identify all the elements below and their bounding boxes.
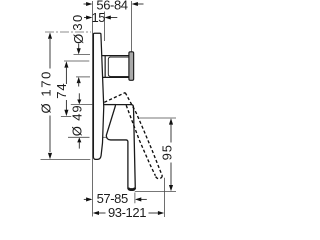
dimension diameter 30 arrows — [78, 44, 80, 50]
dimension diameter 74 — [64, 61, 68, 67]
wire diameter170 bottom reference — [41, 159, 91, 161]
svg-text:30: 30 — [70, 13, 85, 30]
svg-text:93-121: 93-121 — [108, 205, 146, 220]
lever handle dashed — [104, 93, 162, 179]
svg-text:95: 95 — [159, 144, 174, 160]
dimension 56-84 — [84, 3, 144, 5]
svg-text:15: 15 — [91, 10, 105, 25]
dimension 15 — [84, 17, 117, 19]
svg-text:74: 74 — [54, 82, 69, 98]
svg-text:57-85: 57-85 — [97, 191, 128, 206]
wire diameter30 top reference — [74, 54, 91, 56]
wire wall extension line — [92, 1, 94, 217]
svg-text:Ø 170: Ø 170 — [39, 70, 54, 113]
wire diameter49 bottom reference — [68, 136, 90, 138]
wire diameter49 top reference — [71, 104, 104, 106]
dimension 95 — [139, 117, 176, 119]
escutcheon plate — [93, 33, 103, 159]
foot thick bottom — [128, 188, 135, 190]
sleeve body — [102, 56, 129, 78]
svg-text:Ø 49: Ø 49 — [70, 105, 85, 137]
wire hub top edge — [104, 104, 116, 106]
dimension diameter 49 — [78, 93, 80, 100]
wire extension line right of 56-84 — [131, 1, 133, 52]
wire extension line right of 15 — [103, 12, 105, 42]
wire diameter74 top reference — [64, 60, 89, 62]
dimension 93-121 — [164, 178, 166, 217]
svg-text:Ø: Ø — [71, 34, 86, 44]
handle hub and foot — [106, 105, 135, 191]
wire diameter74 bottom reference — [61, 115, 71, 117]
dimension 57-85 — [134, 193, 136, 204]
centerline spindle axis — [45, 31, 91, 33]
dimension diameter 170 — [49, 39, 51, 69]
flange cap — [129, 52, 134, 81]
wire diameter30 bottom reference — [76, 76, 90, 78]
